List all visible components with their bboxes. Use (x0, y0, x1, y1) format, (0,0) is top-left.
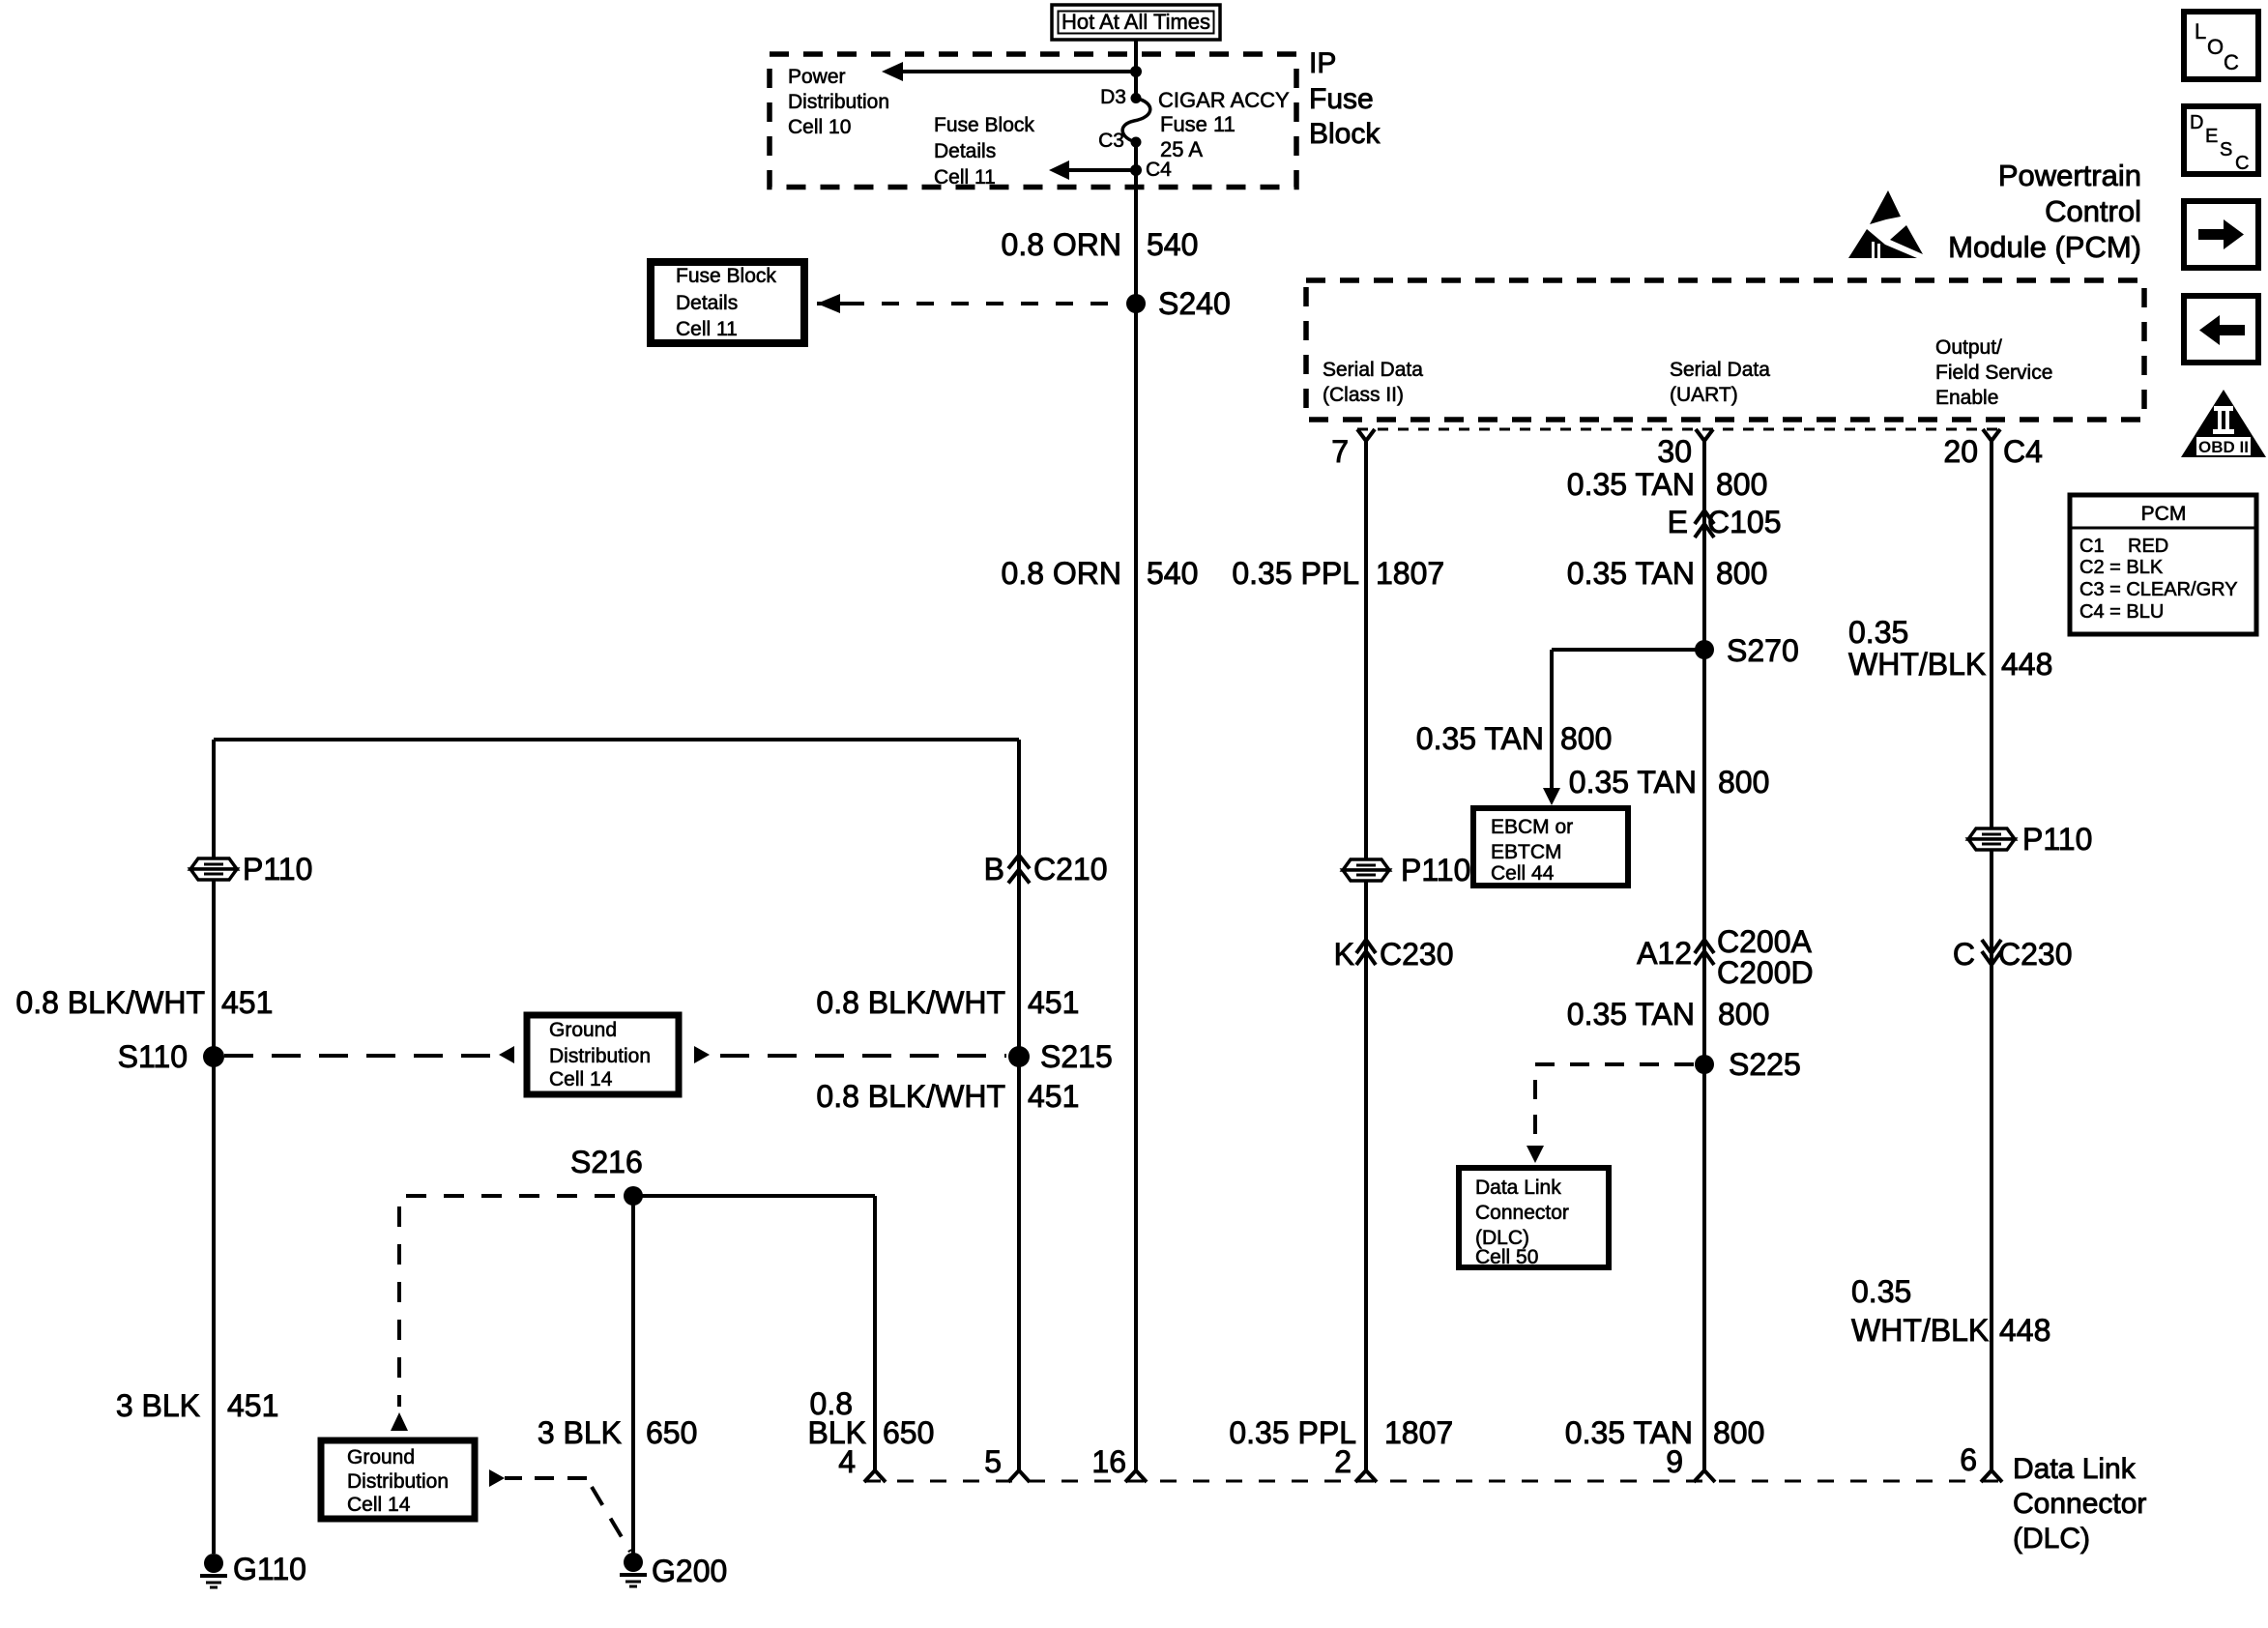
wire: 0.35 TAN 800 (PCM pin 30 to DLC pin 9) (1702, 441, 1706, 1470)
svg-text:0.35: 0.35 (1848, 615, 1908, 650)
svg-text:CIGAR ACCY: CIGAR ACCY (1158, 88, 1290, 112)
svg-text:S240: S240 (1158, 286, 1231, 321)
svg-text:540: 540 (1147, 227, 1198, 262)
svg-text:D3: D3 (1100, 86, 1126, 108)
wire: fuse output C3 down to C4 (1134, 142, 1138, 170)
svg-text:650: 650 (646, 1415, 697, 1450)
svg-text:20: 20 (1943, 434, 1978, 469)
svg-text:P110: P110 (243, 852, 312, 887)
svg-text:Connector: Connector (2013, 1488, 2146, 1520)
svg-text:C200A: C200A (1717, 924, 1813, 959)
wire: top horizontal (C210 branch to left rail) (214, 738, 1019, 741)
svg-text:2: 2 (1334, 1444, 1352, 1479)
svg-text:(Class II): (Class II) (1323, 384, 1404, 406)
splice S225 (1695, 1055, 1714, 1074)
connector C105 pin E (double chevron) (1695, 510, 1714, 524)
grommet P110 on left rail (190, 858, 237, 869)
dashed link: S110 to Ground Distribution box (224, 1054, 494, 1058)
svg-text:Fuse 11: Fuse 11 (1160, 112, 1236, 136)
box: PCM connector legend (2070, 495, 2256, 634)
svg-text:650: 650 (883, 1415, 934, 1450)
svg-text:C3: C3 (1098, 130, 1124, 152)
svg-text:C2 = BLK: C2 = BLK (2079, 557, 2164, 578)
svg-text:E: E (1668, 505, 1688, 539)
dashed link: S240 to Fuse Block Details box (847, 302, 1122, 305)
svg-text:C210: C210 (1033, 852, 1108, 887)
symbol: forward arrow box (2184, 201, 2258, 268)
svg-text:451: 451 (227, 1388, 278, 1423)
svg-text:K: K (1334, 937, 1354, 972)
svg-text:Details: Details (934, 140, 996, 162)
svg-text:BLK: BLK (808, 1415, 866, 1450)
svg-text:0.35 TAN: 0.35 TAN (1569, 765, 1697, 799)
svg-text:Ground: Ground (347, 1446, 415, 1468)
svg-text:451: 451 (221, 985, 273, 1020)
svg-text:EBTCM: EBTCM (1491, 841, 1562, 863)
svg-text:800: 800 (1560, 721, 1612, 756)
svg-text:Connector: Connector (1475, 1202, 1569, 1224)
connector C230 pin K (double chevron) (1356, 940, 1376, 953)
DLC pin 5 chevron (1008, 1470, 1030, 1482)
ESD static-sensitive symbol (1870, 190, 1901, 224)
svg-text:IP: IP (1309, 47, 1336, 79)
svg-text:Distribution: Distribution (347, 1470, 449, 1493)
svg-text:G110: G110 (233, 1552, 306, 1586)
svg-text:C4: C4 (1146, 159, 1172, 181)
dashed box: PCM module (1306, 280, 2144, 420)
svg-text:S215: S215 (1040, 1039, 1113, 1074)
svg-text:800: 800 (1718, 765, 1769, 799)
svg-text:Data Link: Data Link (1475, 1177, 1561, 1199)
grommet P110 on Class II wire (1343, 859, 1389, 870)
junction node on V1 at power distribution tap (1130, 66, 1142, 77)
svg-text:PCM: PCM (2141, 503, 2187, 525)
svg-text:OBD II: OBD II (2198, 438, 2249, 456)
svg-text:5: 5 (984, 1444, 1002, 1479)
arrow: to Fuse Block Details Cell 11 (1061, 168, 1136, 172)
svg-text:Cell 14: Cell 14 (347, 1494, 411, 1516)
svg-text:S: S (2220, 139, 2232, 160)
svg-text:C3 = CLEAR/GRY: C3 = CLEAR/GRY (2079, 579, 2238, 600)
grommet P110 on field service wire (1968, 829, 2015, 839)
svg-text:B: B (984, 852, 1004, 887)
svg-text:Ground: Ground (549, 1019, 617, 1041)
splice S240 (1126, 294, 1146, 313)
svg-text:Cell 14: Cell 14 (549, 1068, 613, 1090)
splice S216 (624, 1186, 643, 1206)
svg-text:S270: S270 (1727, 633, 1799, 668)
svg-text:Enable: Enable (1935, 387, 1998, 409)
wire: 0.8 BLK/WHT 451 (C210 to DLC pin 5) (1017, 740, 1021, 1470)
svg-text:Module (PCM): Module (PCM) (1948, 230, 2141, 264)
svg-text:800: 800 (1716, 556, 1767, 591)
svg-text:0.35 TAN: 0.35 TAN (1567, 556, 1695, 591)
svg-text:448: 448 (2001, 647, 2052, 682)
svg-text:E: E (2205, 126, 2218, 147)
svg-text:Details: Details (676, 292, 738, 314)
svg-text:0.8 BLK/WHT: 0.8 BLK/WHT (816, 1079, 1005, 1114)
ground G200 (624, 1553, 643, 1572)
wire: feed from Hot At All Times into fuse (V1 top) (1134, 40, 1138, 98)
svg-text:Fuse Block: Fuse Block (934, 114, 1034, 136)
splice S215 (1008, 1046, 1030, 1067)
svg-text:0.8 ORN: 0.8 ORN (1002, 227, 1121, 262)
connector C200A/C200D pin A12 (double chevron) (1695, 940, 1714, 953)
DLC pin 6 chevron (1981, 1470, 2002, 1482)
box: Fuse Block Details Cell 11 (651, 262, 804, 343)
wire: 0.35 WHT/BLK 448 (PCM pin 20 to DLC pin 6) (1990, 441, 1993, 1470)
svg-text:C: C (1953, 937, 1975, 972)
box: Ground Distribution Cell 14 (lower) (321, 1440, 475, 1519)
svg-text:3 BLK: 3 BLK (538, 1415, 622, 1450)
svg-text:C200D: C200D (1717, 955, 1814, 990)
symbol: back arrow box (2184, 296, 2258, 363)
splice S270 (1695, 640, 1714, 659)
wire: 0.35 PPL 1807 (PCM pin 7 to DLC pin 2) (1364, 441, 1368, 1470)
svg-text:WHT/BLK: WHT/BLK (1851, 1313, 1989, 1348)
dashed link: S225 to Data Link Connector box (1535, 1064, 1694, 1144)
DLC pin 16 chevron (1125, 1470, 1147, 1482)
dashed link: S216 to Ground Distribution box (lower) (406, 1194, 623, 1198)
svg-text:0.8 BLK/WHT: 0.8 BLK/WHT (15, 985, 205, 1020)
connector C210 pin B (double chevron) (1008, 856, 1030, 869)
pin D3 node (1131, 93, 1142, 103)
svg-text:Fuse: Fuse (1309, 83, 1374, 115)
svg-text:Output/: Output/ (1935, 336, 2002, 359)
svg-text:C230: C230 (1998, 937, 2073, 972)
svg-text:Cell 11: Cell 11 (676, 318, 738, 340)
svg-text:0.35 PPL: 0.35 PPL (1232, 556, 1359, 591)
svg-text:Powertrain: Powertrain (1998, 159, 2141, 192)
DLC connector dashed line (864, 1480, 2003, 1483)
junction node C4 (1130, 164, 1142, 176)
dashed box: IP Fuse Block (770, 54, 1296, 188)
svg-text:(UART): (UART) (1670, 384, 1738, 406)
svg-text:Cell 10: Cell 10 (788, 116, 851, 138)
PCM connector dashed line (1357, 428, 2003, 431)
svg-text:Power: Power (788, 66, 846, 88)
svg-text:WHT/BLK: WHT/BLK (1848, 647, 1986, 682)
arrow: to Power Distribution Cell 10 (901, 70, 1136, 73)
svg-text:Block: Block (1309, 118, 1381, 150)
svg-text:451: 451 (1028, 1079, 1079, 1114)
DLC pin 4 chevron (864, 1470, 886, 1482)
pin C3 node (1131, 137, 1142, 148)
wire: left rail 0.8 BLK/WHT 451 down to G110 (212, 740, 216, 1554)
svg-text:S110: S110 (118, 1039, 188, 1074)
splice S110 (203, 1046, 224, 1067)
wire: branch from S270 to EBCM (1552, 648, 1704, 652)
svg-text:Fuse Block: Fuse Block (676, 265, 776, 287)
svg-text:16: 16 (1091, 1444, 1126, 1479)
svg-text:800: 800 (1716, 467, 1767, 502)
wire: S216 to DLC pin 4 branch (633, 1194, 875, 1198)
svg-text:Serial Data: Serial Data (1670, 359, 1770, 381)
box: Ground Distribution Cell 14 (upper) (527, 1015, 679, 1094)
svg-text:C: C (2235, 153, 2249, 174)
box: Hot At All Times (1052, 5, 1220, 40)
svg-text:Cell 44: Cell 44 (1491, 862, 1555, 885)
svg-text:800: 800 (1718, 997, 1769, 1032)
svg-text:0.8 BLK/WHT: 0.8 BLK/WHT (816, 985, 1005, 1020)
symbol: DESC box (2184, 106, 2258, 174)
PCM pin 7 chevron (1357, 429, 1375, 441)
PCM pin 30 chevron (1696, 429, 1713, 441)
symbol: LOC box (2184, 12, 2258, 79)
svg-text:30: 30 (1657, 434, 1692, 469)
box: Data Link Connector (DLC) Cell 50 (1459, 1168, 1609, 1267)
symbol: OBD II triangle (2181, 390, 2266, 457)
svg-text:0.35 TAN: 0.35 TAN (1567, 467, 1695, 502)
svg-text:Cell 50: Cell 50 (1475, 1246, 1538, 1268)
svg-text:3 BLK: 3 BLK (116, 1388, 200, 1423)
svg-text:Control: Control (2045, 194, 2141, 228)
svg-text:G200: G200 (652, 1554, 727, 1588)
svg-text:O: O (2207, 35, 2224, 59)
svg-text:C105: C105 (1707, 505, 1782, 539)
svg-text:Data Link: Data Link (2013, 1453, 2137, 1485)
svg-text:EBCM or: EBCM or (1491, 816, 1573, 838)
svg-text:C1: C1 (2079, 536, 2105, 557)
svg-text:Cell 11: Cell 11 (934, 166, 996, 189)
svg-text:800: 800 (1713, 1415, 1764, 1450)
svg-text:Serial Data: Serial Data (1323, 359, 1423, 381)
svg-text:540: 540 (1147, 556, 1198, 591)
svg-text:448: 448 (1999, 1313, 2050, 1348)
wire: 3 BLK 650 S216 down to G200 (631, 1196, 635, 1554)
svg-text:0.8 ORN: 0.8 ORN (1002, 556, 1121, 591)
svg-text:9: 9 (1666, 1444, 1683, 1479)
svg-text:0.35: 0.35 (1851, 1274, 1911, 1309)
svg-text:7: 7 (1331, 434, 1349, 469)
svg-text:Distribution: Distribution (788, 91, 889, 113)
dashed link: Ground Distribution box to S215 (694, 1046, 710, 1063)
svg-text:1807: 1807 (1384, 1415, 1453, 1450)
svg-text:0.35 TAN: 0.35 TAN (1567, 997, 1695, 1032)
box: EBCM or EBTCM Cell 44 (1473, 808, 1628, 886)
DLC pin 9 chevron (1694, 1470, 1715, 1482)
svg-text:P110: P110 (1401, 853, 1470, 887)
svg-text:1807: 1807 (1376, 556, 1444, 591)
svg-text:S225: S225 (1729, 1047, 1801, 1082)
connector C230 pin C (double chevron down) (1982, 940, 2001, 953)
svg-text:P110: P110 (2022, 822, 2092, 857)
PCM pin 20 chevron (1983, 429, 2000, 441)
svg-text:6: 6 (1960, 1442, 1977, 1477)
svg-text:Field Service: Field Service (1935, 362, 2052, 384)
svg-text:(DLC): (DLC) (2013, 1523, 2090, 1555)
svg-text:L: L (2195, 19, 2206, 44)
svg-text:4: 4 (838, 1444, 856, 1479)
DLC pin 2 chevron (1355, 1470, 1377, 1482)
svg-text:Hot At All Times: Hot At All Times (1061, 10, 1210, 34)
svg-text:Distribution: Distribution (549, 1045, 651, 1067)
wire: 0.8 ORN 540 from C4 through S240 to DLC pin 16 (1134, 170, 1138, 1470)
svg-text:451: 451 (1028, 985, 1079, 1020)
svg-text:0.35 TAN: 0.35 TAN (1416, 721, 1544, 756)
svg-text:A12: A12 (1637, 936, 1692, 971)
dashed link: Ground Distribution box (lower) to G200 (489, 1469, 505, 1487)
svg-text:D: D (2190, 112, 2203, 133)
svg-text:C: C (2224, 50, 2239, 74)
svg-text:S216: S216 (570, 1145, 643, 1179)
svg-text:C4 = BLU: C4 = BLU (2079, 601, 2164, 623)
ground G110 (204, 1554, 223, 1573)
fuse F11 (CIGAR ACCY 25 A) element (1122, 99, 1150, 143)
svg-text:C4: C4 (2003, 434, 2043, 469)
svg-text:RED: RED (2128, 536, 2168, 557)
svg-text:C230: C230 (1380, 937, 1454, 972)
